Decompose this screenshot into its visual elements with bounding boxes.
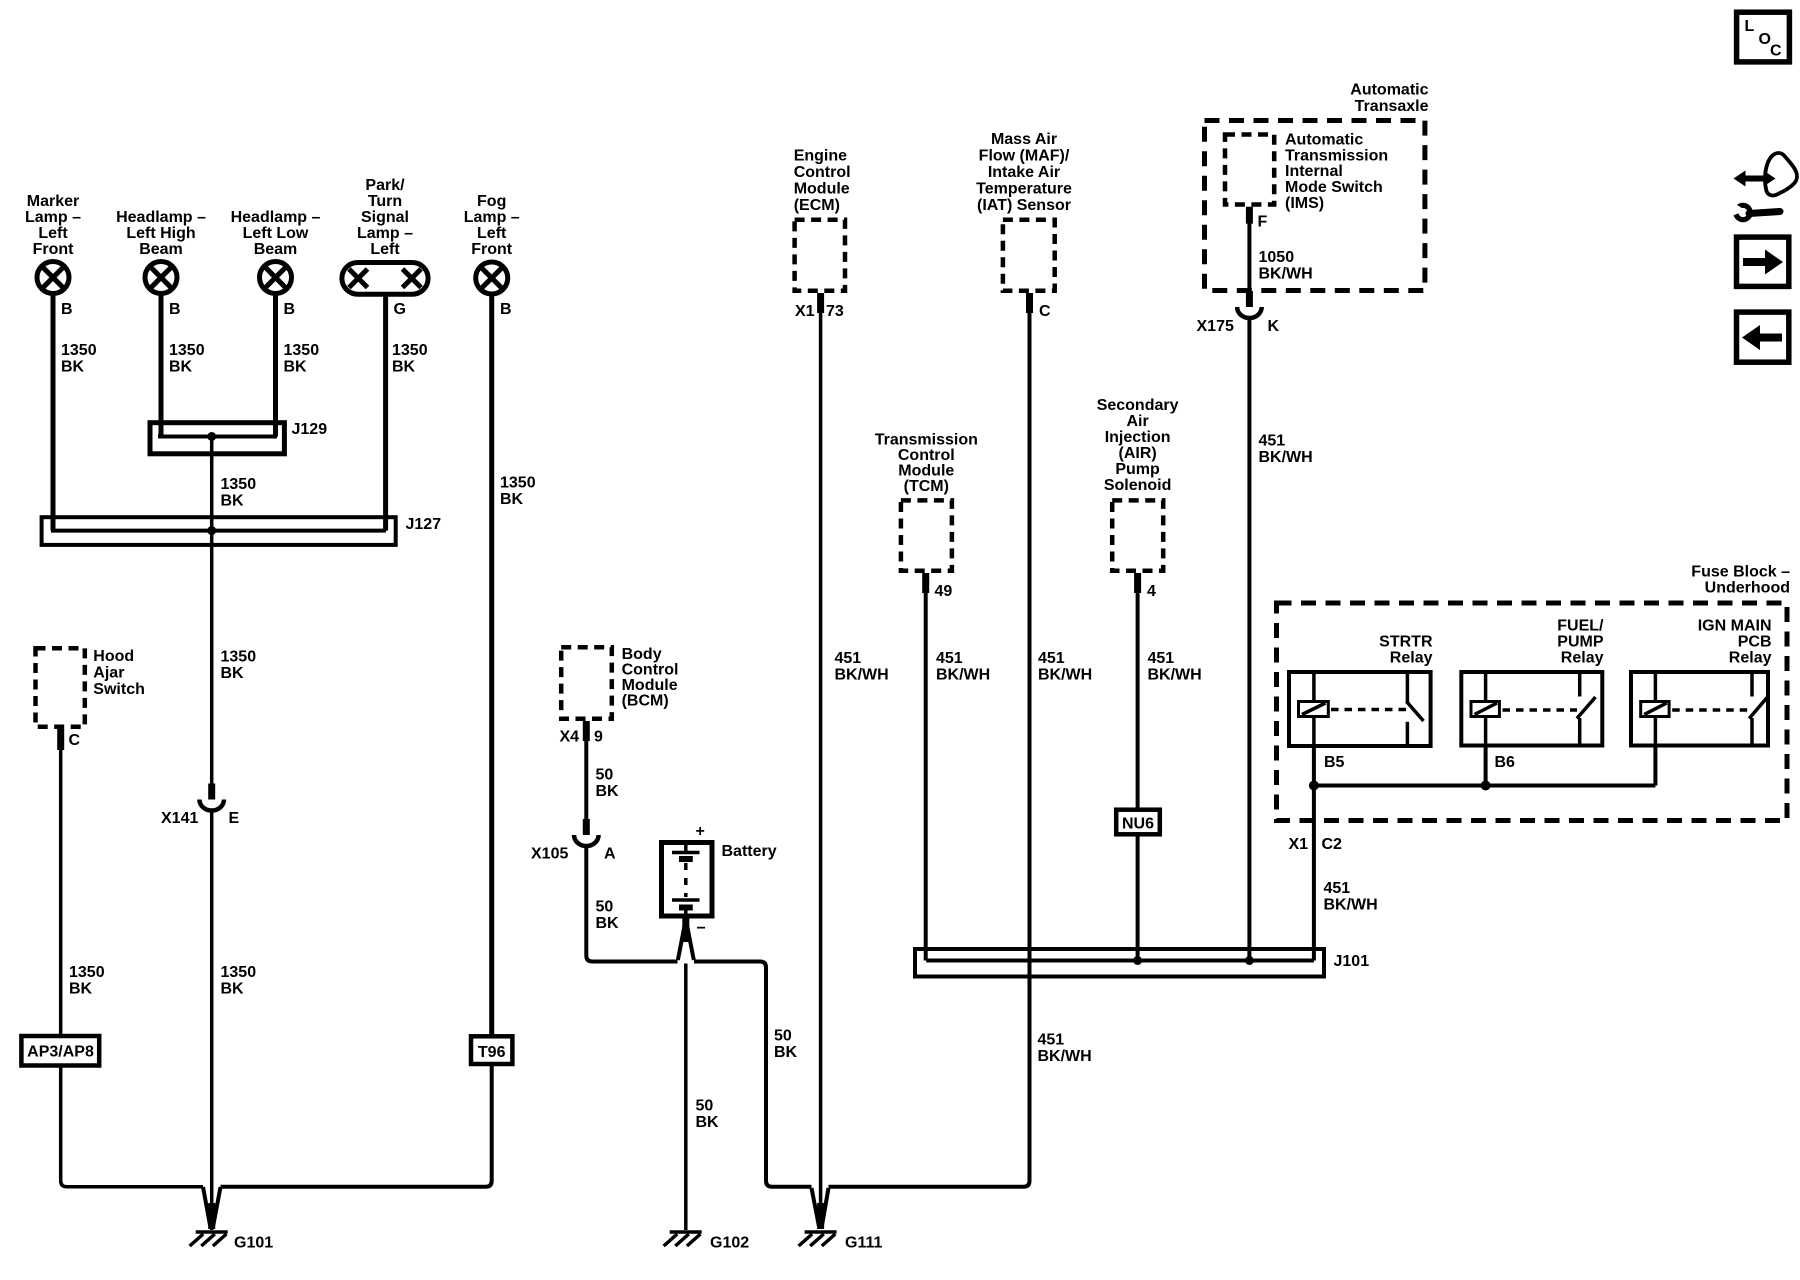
svg-text:1350: 1350 — [69, 964, 105, 981]
svg-text:X105: X105 — [531, 846, 568, 863]
svg-text:Park/: Park/ — [365, 177, 405, 194]
wire label 1350 BK (park/turn) — [392, 342, 428, 376]
wire K2 coil pin B6 to bus — [1484, 746, 1488, 786]
battery G-BT — [662, 843, 713, 917]
svg-text:Internal: Internal — [1285, 163, 1343, 180]
label IGN MAIN PCB Relay — [1698, 618, 1772, 667]
pin stub below hood switch — [57, 729, 64, 750]
wire J127 to X141 — [210, 531, 214, 784]
wire TCM to J101 — [924, 593, 928, 961]
svg-text:B5: B5 — [1324, 754, 1345, 771]
svg-text:Relay: Relay — [1561, 650, 1604, 667]
wire label 1350 BK (J129 stem) — [221, 476, 257, 510]
wire AIR solenoid to J101 — [1136, 593, 1140, 961]
wire label 50 BK (BCM) — [596, 767, 620, 801]
relay K2 switch — [1577, 672, 1596, 746]
wire T96 to G101 bus — [221, 1064, 492, 1187]
wire MAF to ground bus — [829, 313, 1030, 1187]
svg-text:Underhood: Underhood — [1705, 580, 1790, 597]
svg-text:B: B — [169, 301, 181, 318]
svg-text:451: 451 — [936, 650, 963, 667]
svg-text:IGN MAIN: IGN MAIN — [1698, 618, 1772, 635]
module BCM Body Control Module (dashed) — [561, 647, 612, 719]
svg-text:Mode Switch: Mode Switch — [1285, 179, 1383, 196]
wire label 1350 BK (below J127) — [221, 649, 257, 683]
wire E4 to J127 — [383, 297, 388, 531]
wire label 1050 BK/WH — [1259, 249, 1313, 282]
svg-text:Automatic: Automatic — [1350, 82, 1428, 99]
wire ECM to G111 — [819, 313, 823, 1227]
svg-text:BK: BK — [221, 981, 245, 998]
pin stub below IMS — [1246, 207, 1253, 224]
svg-text:C: C — [69, 732, 81, 749]
wire K1 coil pin B5 to bus — [1312, 746, 1316, 786]
svg-text:G: G — [394, 301, 406, 318]
svg-text:C2: C2 — [1322, 836, 1343, 853]
wire label 1350 BK (marker) — [61, 342, 97, 376]
lamp E1 Marker Lamp - Left Front — [37, 262, 69, 294]
svg-text:Fog: Fog — [477, 193, 506, 210]
svg-text:BK/WH: BK/WH — [1259, 265, 1313, 282]
pin stub below MAF — [1026, 293, 1033, 313]
svg-text:G111: G111 — [845, 1235, 882, 1252]
solenoid AIR Pump (dashed) — [1112, 500, 1163, 570]
lamp E5 Fog Lamp - Left Front — [476, 262, 508, 294]
svg-text:X1: X1 — [1289, 836, 1309, 853]
inline label T96 — [471, 1036, 512, 1064]
svg-text:(BCM): (BCM) — [622, 693, 669, 710]
svg-text:49: 49 — [935, 583, 953, 600]
svg-text:451: 451 — [1038, 1032, 1065, 1049]
svg-text:BK: BK — [696, 1114, 720, 1131]
ground funnel G101 — [203, 1187, 221, 1229]
svg-text:Marker: Marker — [27, 193, 79, 210]
relay K1 coil-switch dashed link — [1331, 708, 1407, 712]
inline label NU6 — [1116, 810, 1160, 835]
svg-text:Left Low: Left Low — [243, 225, 309, 242]
wire J129 to J127 — [210, 437, 214, 531]
switch S1 Hood Ajar Switch (dashed) — [36, 648, 85, 727]
wire BCM to X105 — [584, 741, 588, 820]
connector X141 — [199, 784, 224, 811]
svg-text:Hood: Hood — [93, 648, 134, 665]
svg-text:BK: BK — [169, 359, 193, 376]
wire label 451 BK/WH (ECM) — [835, 650, 889, 684]
wire label 451 BK/WH (MAF upper) — [1038, 650, 1092, 684]
svg-text:Left: Left — [38, 225, 68, 242]
svg-text:73: 73 — [826, 303, 844, 320]
svg-text:L: L — [1745, 18, 1755, 35]
svg-text:BK: BK — [284, 359, 308, 376]
svg-text:X1: X1 — [795, 303, 815, 320]
wire X141 to G101 — [210, 810, 214, 1230]
wire K3 coil pin to bus — [1653, 746, 1657, 786]
junction dot B5 — [1309, 781, 1319, 791]
icon double arrow with component outline and wrench — [1732, 153, 1797, 220]
svg-text:Transmission: Transmission — [1285, 147, 1388, 164]
relay feed bus — [1314, 784, 1656, 788]
svg-text:451: 451 — [1038, 650, 1065, 667]
svg-text:Pump: Pump — [1115, 461, 1160, 478]
svg-text:Automatic: Automatic — [1285, 132, 1363, 149]
svg-text:T96: T96 — [478, 1044, 506, 1061]
label Automatic Transaxle — [1350, 82, 1428, 116]
svg-text:BK/WH: BK/WH — [1259, 449, 1313, 466]
relay K3 coil — [1641, 672, 1669, 746]
svg-text:1350: 1350 — [221, 476, 257, 493]
svg-text:BK: BK — [221, 493, 245, 510]
svg-text:BK: BK — [596, 783, 620, 800]
svg-text:BK/WH: BK/WH — [1148, 667, 1202, 684]
pin stub below BCM — [583, 721, 590, 741]
svg-text:451: 451 — [1324, 880, 1351, 897]
svg-text:G102: G102 — [710, 1235, 749, 1252]
relay K3 coil-switch dashed link — [1672, 708, 1749, 712]
wire label 451 BK/WH (AIR) — [1148, 650, 1202, 684]
svg-text:B: B — [61, 301, 73, 318]
svg-text:BK: BK — [221, 665, 245, 682]
svg-text:Left: Left — [370, 241, 400, 258]
svg-text:Headlamp –: Headlamp – — [116, 209, 206, 226]
svg-text:X4: X4 — [560, 729, 580, 746]
svg-text:X141: X141 — [161, 810, 198, 827]
junction dot B6 — [1481, 781, 1491, 791]
svg-text:F: F — [1258, 214, 1268, 231]
label lamp E3 — [231, 209, 321, 258]
junction dot in J101 (AIR) — [1133, 956, 1142, 965]
svg-text:1050: 1050 — [1259, 249, 1295, 266]
junction dot in J127 — [207, 526, 216, 535]
wire label 1350 BK (above G101) — [221, 964, 257, 998]
label TCM — [875, 432, 978, 496]
svg-text:1350: 1350 — [500, 475, 536, 492]
svg-text:J129: J129 — [292, 421, 328, 438]
wire E5 to T96 — [489, 294, 494, 1036]
svg-text:Module: Module — [898, 463, 954, 480]
svg-text:1350: 1350 — [392, 342, 428, 359]
label BCM — [622, 646, 679, 710]
relay K3 IGN MAIN PCB Relay box — [1631, 672, 1768, 746]
module ECM Engine Control Module (dashed) — [795, 220, 845, 291]
svg-text:AP3/AP8: AP3/AP8 — [27, 1044, 94, 1061]
box Fuse Block - Underhood (dashed) — [1277, 603, 1788, 821]
svg-text:Transmission: Transmission — [875, 432, 978, 449]
label Hood Ajar Switch — [93, 648, 145, 698]
lamp E4 Park/Turn Signal Lamp - Left — [342, 263, 428, 295]
wire label 451 BK/WH (fuse block) — [1324, 880, 1378, 914]
label Fuse Block - Underhood — [1691, 564, 1790, 597]
svg-text:Control: Control — [622, 662, 679, 679]
lamp E3 Headlamp - Left Low Beam — [260, 262, 292, 294]
svg-text:4: 4 — [1147, 583, 1156, 600]
svg-text:A: A — [604, 846, 616, 863]
svg-text:Relay: Relay — [1390, 650, 1433, 667]
wire battery to G102 — [684, 964, 688, 1231]
relay K1 coil — [1299, 672, 1329, 746]
relay K2 coil — [1471, 672, 1499, 746]
svg-text:451: 451 — [1148, 650, 1175, 667]
svg-text:FUEL/: FUEL/ — [1557, 618, 1604, 635]
wire E3 to J129 — [273, 294, 278, 437]
svg-text:Solenoid: Solenoid — [1104, 477, 1172, 494]
svg-text:1350: 1350 — [284, 342, 320, 359]
svg-text:Beam: Beam — [254, 241, 298, 258]
svg-text:Switch: Switch — [93, 681, 145, 698]
svg-text:Module: Module — [794, 181, 850, 198]
svg-text:9: 9 — [594, 729, 603, 746]
svg-text:Headlamp –: Headlamp – — [231, 209, 321, 226]
svg-text:B: B — [500, 301, 512, 318]
wire X175 to J101 — [1247, 318, 1251, 961]
svg-text:Left High: Left High — [126, 225, 195, 242]
svg-text:Front: Front — [471, 241, 513, 258]
svg-text:(AIR): (AIR) — [1118, 445, 1156, 462]
label MAF/IAT — [976, 131, 1072, 214]
label lamp E4 — [357, 177, 413, 258]
label FUEL/PUMP Relay — [1557, 618, 1604, 667]
svg-text:PCB: PCB — [1738, 634, 1772, 651]
svg-text:J127: J127 — [406, 516, 442, 533]
ground symbol G101 — [190, 1232, 228, 1246]
relay K1 STRTR Relay box — [1289, 672, 1431, 746]
svg-text:Engine: Engine — [794, 148, 847, 165]
svg-text:Control: Control — [794, 164, 851, 181]
wire E2 to J129 — [159, 294, 164, 437]
svg-text:Beam: Beam — [139, 241, 183, 258]
ground symbol G111 — [799, 1232, 837, 1246]
svg-text:50: 50 — [774, 1028, 792, 1045]
battery negative funnel — [678, 918, 694, 960]
junction dot in J101 (IMS) — [1245, 956, 1254, 965]
svg-text:BK/WH: BK/WH — [1038, 1048, 1092, 1065]
svg-text:Lamp –: Lamp – — [25, 209, 81, 226]
svg-text:B: B — [284, 301, 296, 318]
svg-text:B6: B6 — [1495, 754, 1516, 771]
svg-text:Temperature: Temperature — [976, 181, 1072, 198]
svg-text:Flow (MAF)/: Flow (MAF)/ — [979, 148, 1070, 165]
label ECM — [794, 148, 851, 215]
splice pack J127 — [42, 517, 396, 545]
pin stub below TCM — [922, 573, 929, 593]
svg-text:Relay: Relay — [1729, 650, 1772, 667]
svg-text:C: C — [1770, 43, 1782, 60]
svg-text:G101: G101 — [234, 1235, 273, 1252]
relay K3 switch — [1749, 672, 1767, 746]
svg-text:BK: BK — [596, 915, 620, 932]
wire E1 to J127 — [51, 294, 56, 531]
svg-text:BK/WH: BK/WH — [936, 667, 990, 684]
label lamp E2 — [116, 209, 206, 258]
svg-text:Mass Air: Mass Air — [991, 131, 1057, 148]
svg-text:50: 50 — [596, 767, 614, 784]
svg-text:Injection: Injection — [1105, 429, 1171, 446]
svg-text:BK: BK — [774, 1044, 798, 1061]
ground symbol G102 — [664, 1232, 702, 1246]
svg-text:(IAT) Sensor: (IAT) Sensor — [977, 197, 1071, 214]
label STRTR Relay — [1379, 634, 1433, 667]
icon arrow left box — [1737, 312, 1789, 362]
svg-text:BK: BK — [61, 359, 85, 376]
lamp E2 Headlamp - Left High Beam — [145, 262, 177, 294]
svg-text:Module: Module — [622, 677, 678, 694]
svg-text:Transaxle: Transaxle — [1355, 98, 1429, 115]
sensor MAF/IAT (dashed) — [1003, 220, 1055, 291]
svg-text:1350: 1350 — [221, 964, 257, 981]
switch IMS (dashed) — [1225, 135, 1274, 205]
svg-text:Lamp –: Lamp – — [357, 225, 413, 242]
svg-text:BK/WH: BK/WH — [1038, 667, 1092, 684]
label lamp E5 — [464, 193, 520, 258]
wire hood switch to G101 — [61, 750, 203, 1187]
relay K2 coil-switch dashed link — [1503, 708, 1578, 712]
pin stub below AIR solenoid — [1134, 573, 1141, 593]
svg-text:451: 451 — [835, 650, 862, 667]
svg-text:Signal: Signal — [361, 209, 409, 226]
module TCM Transmission Control Module (dashed) — [901, 500, 952, 570]
svg-text:(ECM): (ECM) — [794, 197, 840, 214]
svg-text:−: − — [697, 920, 706, 937]
pin stub below ECM — [817, 293, 824, 313]
svg-text:NU6: NU6 — [1122, 816, 1154, 833]
svg-text:BK/WH: BK/WH — [835, 667, 889, 684]
svg-text:Battery: Battery — [722, 843, 777, 860]
svg-text:PUMP: PUMP — [1557, 634, 1604, 651]
svg-text:Secondary: Secondary — [1097, 397, 1179, 414]
svg-text:Left: Left — [477, 225, 507, 242]
svg-text:BK: BK — [69, 981, 93, 998]
wire label 1350 BK (hood switch) — [69, 964, 105, 998]
label AIR Pump Solenoid — [1097, 397, 1179, 494]
svg-text:50: 50 — [696, 1098, 714, 1115]
svg-text:+: + — [696, 823, 705, 840]
wire label 1350 BK (low beam) — [284, 342, 320, 376]
wire label 1350 BK (fog) — [500, 475, 536, 509]
wire label 50 BK (below X105) — [596, 899, 620, 933]
icon LOC box — [1737, 12, 1790, 62]
inline fuse AP3/AP8 — [21, 1036, 99, 1066]
svg-text:J101: J101 — [1334, 953, 1370, 970]
svg-text:STRTR: STRTR — [1379, 634, 1433, 651]
svg-text:(IMS): (IMS) — [1285, 195, 1324, 212]
label IMS — [1285, 132, 1388, 212]
svg-text:451: 451 — [1259, 433, 1286, 450]
splice pack J101 — [915, 949, 1324, 977]
svg-text:Ajar: Ajar — [93, 665, 124, 682]
svg-text:(TCM): (TCM) — [904, 478, 949, 495]
svg-text:BK: BK — [392, 359, 416, 376]
relay K1 switch — [1407, 672, 1424, 746]
icon arrow right box — [1737, 237, 1789, 286]
svg-text:1350: 1350 — [221, 649, 257, 666]
svg-text:1350: 1350 — [169, 342, 205, 359]
box Automatic Transaxle (dashed) — [1205, 121, 1425, 291]
relay K2 FUEL/PUMP Relay box — [1461, 672, 1602, 746]
svg-text:Intake Air: Intake Air — [988, 164, 1060, 181]
wire label 451 BK/WH (IMS) — [1259, 433, 1313, 467]
svg-text:X175: X175 — [1197, 318, 1234, 335]
svg-text:Air: Air — [1126, 413, 1148, 430]
wire IMS to X175 — [1247, 223, 1251, 292]
svg-text:BK: BK — [500, 491, 524, 508]
svg-text:Body: Body — [622, 646, 662, 663]
wire label 451 BK/WH (MAF lower) — [1038, 1032, 1092, 1066]
svg-text:E: E — [229, 810, 240, 827]
label lamp E1 — [25, 193, 81, 258]
ground funnel G111 — [812, 1188, 829, 1229]
junction dot in J129 — [207, 432, 216, 441]
svg-text:Turn: Turn — [368, 193, 402, 210]
svg-text:50: 50 — [596, 899, 614, 916]
wire label 50 BK (right drop) — [774, 1028, 798, 1062]
connector X175 — [1237, 291, 1262, 318]
wire fuse block to J101 — [1312, 786, 1316, 961]
svg-text:Front: Front — [33, 241, 75, 258]
wire X105 to ground bus — [586, 846, 677, 962]
svg-text:Control: Control — [898, 447, 955, 464]
splice pack J129 — [150, 423, 284, 454]
svg-text:Lamp –: Lamp – — [464, 209, 520, 226]
wire label 451 BK/WH (TCM) — [936, 650, 990, 684]
svg-text:BK/WH: BK/WH — [1324, 897, 1378, 914]
svg-text:K: K — [1268, 318, 1280, 335]
ground bus segment right of battery — [694, 962, 812, 1187]
svg-text:1350: 1350 — [61, 342, 97, 359]
wire label 50 BK (to G102) — [696, 1098, 720, 1132]
connector X105 — [574, 819, 599, 846]
svg-text:Fuse Block –: Fuse Block – — [1691, 564, 1790, 581]
svg-text:C: C — [1039, 303, 1051, 320]
wire label 1350 BK (high beam) — [169, 342, 205, 376]
